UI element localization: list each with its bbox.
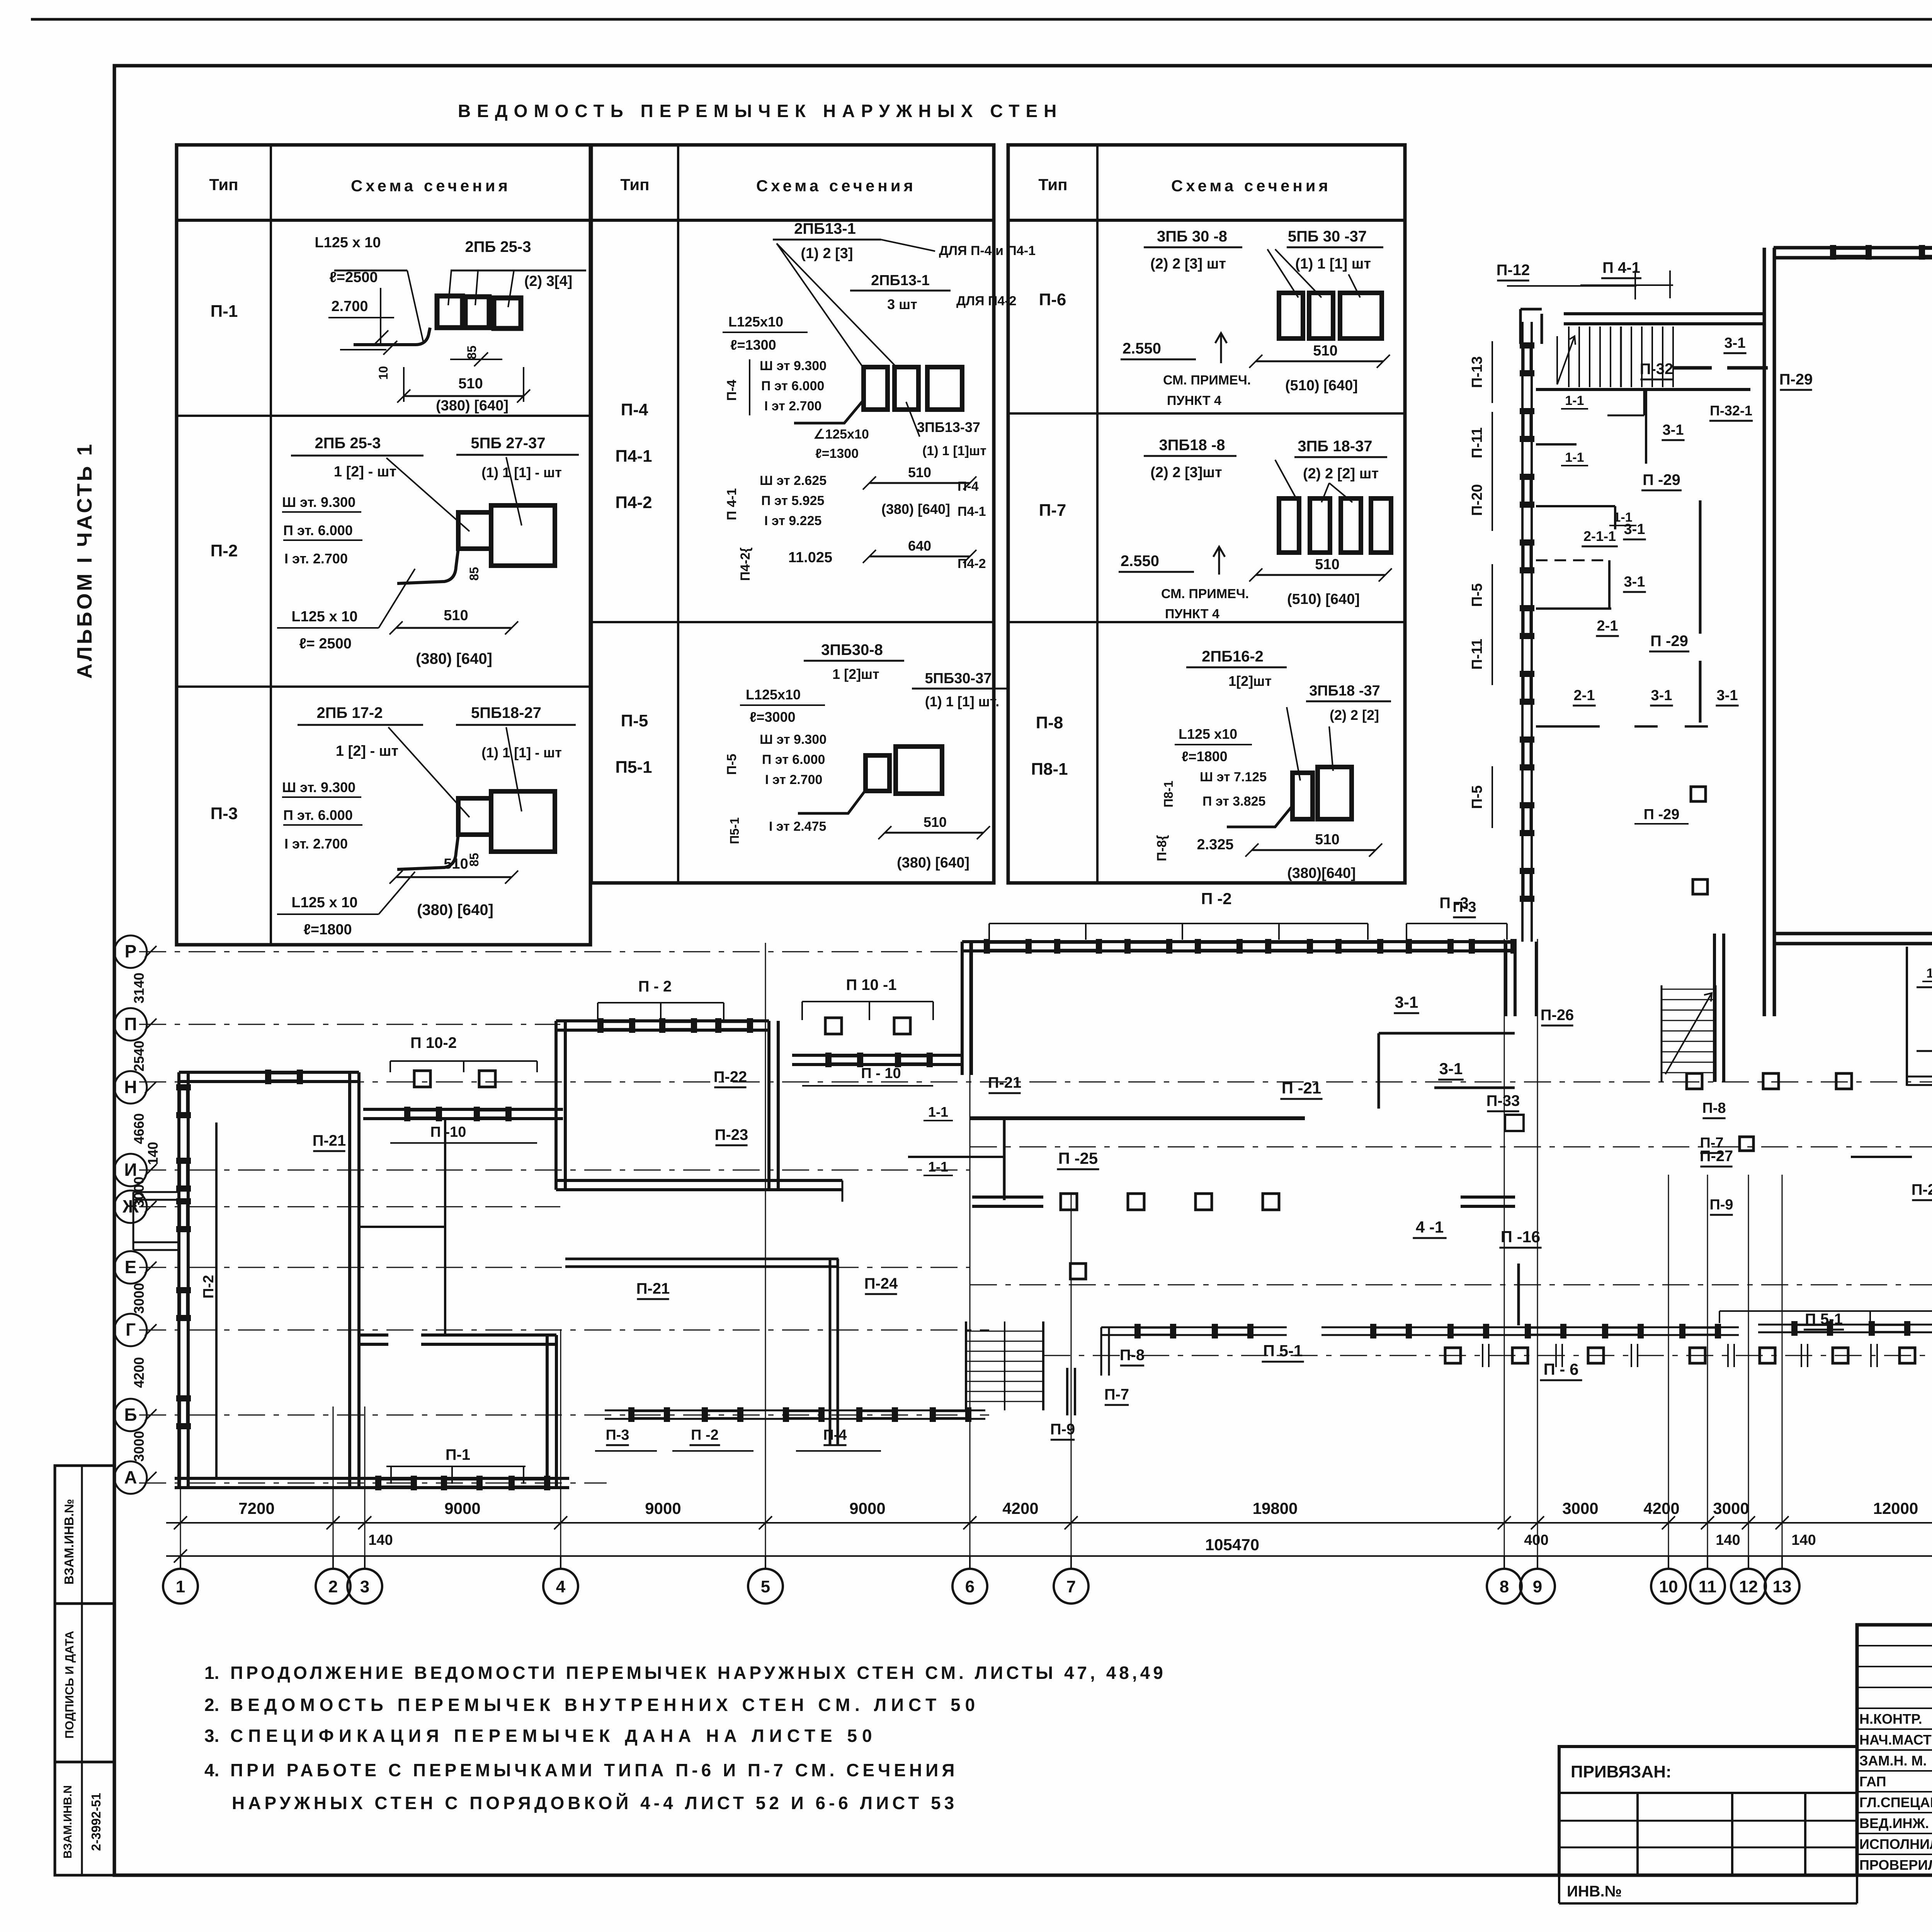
- svg-text:Тип: Тип: [1038, 175, 1067, 194]
- svg-text:(2) 2 [3] шт: (2) 2 [3] шт: [1150, 256, 1226, 272]
- svg-text:П -16: П -16: [1501, 1228, 1541, 1246]
- axis line D: [970, 1284, 1932, 1286]
- inv no row: [1558, 1875, 1560, 1903]
- svg-text:П-4: П-4: [957, 479, 979, 494]
- svg-text:П-1: П-1: [446, 1446, 470, 1463]
- svg-text:П-21: П-21: [988, 1074, 1022, 1091]
- svg-text:(2) 3[4]: (2) 3[4]: [524, 273, 573, 289]
- long P-2 wall: [962, 940, 1515, 943]
- svg-text:510: 510: [458, 376, 483, 392]
- svg-text:П -29: П -29: [1650, 633, 1688, 650]
- svg-text:(380)[640]: (380)[640]: [1287, 865, 1355, 881]
- svg-text:4: 4: [556, 1577, 566, 1596]
- svg-text:(380) [640]: (380) [640]: [881, 501, 950, 517]
- svg-text:L125 x 10: L125 x 10: [315, 235, 381, 251]
- svg-text:Схема сечения: Схема сечения: [1171, 177, 1331, 195]
- svg-text:5ПБ18-27: 5ПБ18-27: [471, 704, 541, 721]
- svg-text:3-1: 3-1: [1439, 1060, 1463, 1078]
- svg-text:П4-1: П4-1: [957, 504, 986, 519]
- axis line B: [139, 1415, 989, 1416]
- svg-text:Тип: Тип: [620, 175, 649, 194]
- svg-text:510: 510: [1315, 832, 1339, 848]
- svg-text:П 4-1: П 4-1: [1602, 259, 1640, 276]
- svg-text:2-1: 2-1: [1597, 618, 1618, 634]
- svg-text:ВЕДОМОСТЬ ПЕРЕМЫЧЕК НАРУЖНЫХ: ВЕДОМОСТЬ ПЕРЕМЫЧЕК НАРУЖНЫХ СТЕН: [458, 101, 1063, 121]
- N row wall segments: [1687, 1073, 1702, 1089]
- svg-text:3-1: 3-1: [1663, 422, 1684, 438]
- axis line A: [139, 1483, 607, 1484]
- svg-text:2-1-1: 2-1-1: [1583, 528, 1616, 544]
- svg-text:1[2]шт: 1[2]шт: [1228, 673, 1272, 689]
- svg-text:ВЗАМ.ИНВ.№: ВЗАМ.ИНВ.№: [62, 1499, 76, 1585]
- room B south wall / window row: [359, 1477, 569, 1480]
- svg-text:ГАП: ГАП: [1859, 1774, 1886, 1789]
- svg-text:1.: 1.: [204, 1663, 219, 1683]
- svg-text:П-12: П-12: [1497, 262, 1530, 279]
- svg-text:П-21: П-21: [313, 1132, 346, 1149]
- svg-text:4.: 4.: [204, 1760, 219, 1780]
- svg-text:П -25: П -25: [1058, 1149, 1098, 1167]
- svg-text:140: 140: [1791, 1532, 1816, 1548]
- hatched corridor pieces: [1673, 366, 1712, 370]
- svg-text:ℓ=1300: ℓ=1300: [730, 337, 776, 353]
- svg-text:(1) 1 [1] - шт: (1) 1 [1] - шт: [481, 464, 562, 480]
- svg-text:ПУНКТ 4: ПУНКТ 4: [1165, 607, 1219, 621]
- svg-text:ℓ=2500: ℓ=2500: [329, 269, 378, 286]
- axis line I: [139, 1170, 970, 1171]
- svg-text:П эт. 6.000: П эт. 6.000: [283, 522, 353, 538]
- svg-text:П -21: П -21: [1282, 1079, 1321, 1097]
- svg-text:3000: 3000: [131, 1177, 147, 1207]
- svg-text:3000: 3000: [131, 1283, 147, 1314]
- svg-text:П4-2: П4-2: [957, 556, 986, 571]
- svg-text:ЗАМ.Н. М.: ЗАМ.Н. М.: [1859, 1753, 1927, 1769]
- svg-text:3ПБ13-37: 3ПБ13-37: [917, 419, 980, 435]
- svg-text:6: 6: [965, 1577, 975, 1596]
- svg-text:Ш эт. 9.300: Ш эт. 9.300: [282, 494, 355, 510]
- svg-text:П5-1: П5-1: [615, 758, 652, 777]
- svg-text:П-32-1: П-32-1: [1710, 403, 1752, 418]
- svg-text:(1) 1 [1] шт: (1) 1 [1] шт: [1295, 256, 1371, 272]
- svg-text:П-2: П-2: [211, 541, 238, 560]
- svg-text:Схема сечения: Схема сечения: [756, 177, 916, 195]
- svg-text:(2) 2 [2]: (2) 2 [2]: [1330, 707, 1379, 723]
- B-wall (west wing top): [1564, 312, 1764, 315]
- svg-text:I эт 2.475: I эт 2.475: [769, 819, 826, 834]
- small partitions: [1536, 505, 1615, 507]
- svg-text:I эт. 2.700: I эт. 2.700: [284, 551, 348, 566]
- svg-text:ПУНКТ 4: ПУНКТ 4: [1167, 393, 1221, 408]
- svg-text:П-2: П-2: [201, 1275, 217, 1298]
- svg-text:L125 x 10: L125 x 10: [291, 609, 357, 625]
- svg-text:П-7: П-7: [1039, 501, 1066, 520]
- svg-text:7200: 7200: [238, 1499, 274, 1517]
- svg-text:П-4: П-4: [823, 1427, 847, 1443]
- room R1 west wall: [554, 1021, 558, 1190]
- svg-text:3-1: 3-1: [1717, 687, 1738, 704]
- svg-text:П эт. 6.000: П эт. 6.000: [283, 807, 353, 823]
- svg-text:2ПБ13-1: 2ПБ13-1: [871, 272, 930, 289]
- svg-text:1 [2]шт: 1 [2]шт: [832, 666, 879, 682]
- axis line G: [139, 1330, 989, 1331]
- room R1 south wall: [556, 1179, 842, 1182]
- svg-text:П-28: П-28: [1912, 1181, 1932, 1198]
- svg-text:П-8: П-8: [1036, 713, 1063, 732]
- svg-text:П-5: П-5: [1469, 785, 1485, 809]
- svg-text:1: 1: [176, 1577, 185, 1596]
- room B east wall: [546, 1335, 549, 1488]
- svg-text:Ш эт 7.125: Ш эт 7.125: [1200, 770, 1267, 784]
- svg-text:П4-2: П4-2: [615, 493, 652, 512]
- svg-text:П-9: П-9: [1709, 1197, 1733, 1213]
- svg-text:I эт. 2.700: I эт. 2.700: [284, 836, 348, 852]
- svg-text:640: 640: [908, 538, 931, 554]
- svg-text:9000: 9000: [645, 1499, 681, 1517]
- svg-text:(1) 2 [3]: (1) 2 [3]: [801, 245, 853, 262]
- left block north wall: [179, 1071, 359, 1074]
- svg-text:(2) 2 [3]шт: (2) 2 [3]шт: [1150, 464, 1222, 481]
- room R1 east wall: [767, 1021, 770, 1190]
- svg-text:П4-1: П4-1: [615, 447, 652, 466]
- svg-text:8: 8: [1500, 1577, 1509, 1596]
- svg-text:10: 10: [1659, 1577, 1678, 1596]
- svg-text:3-1: 3-1: [1624, 521, 1645, 537]
- svg-text:3-1: 3-1: [1725, 335, 1746, 351]
- svg-text:П эт 3.825: П эт 3.825: [1202, 794, 1265, 809]
- svg-text:П-6: П-6: [1039, 290, 1066, 309]
- svg-text:4200: 4200: [1002, 1499, 1038, 1517]
- svg-text:П-24: П-24: [864, 1275, 898, 1292]
- left block west wall: [177, 1072, 180, 1488]
- P-8 corner: [1100, 1327, 1102, 1376]
- left block east wall: [348, 1072, 351, 1488]
- svg-text:3ПБ18 -37: 3ПБ18 -37: [1309, 683, 1380, 699]
- svg-text:10: 10: [376, 366, 390, 380]
- svg-text:ℓ=1800: ℓ=1800: [1182, 748, 1228, 764]
- svg-text:ℓ=3000: ℓ=3000: [750, 709, 796, 725]
- svg-text:(1) 1 [1] шт.: (1) 1 [1] шт.: [925, 694, 1000, 709]
- svg-text:Ш эт 9.300: Ш эт 9.300: [760, 732, 827, 747]
- svg-text:(380) [640]: (380) [640]: [416, 650, 492, 667]
- svg-text:ПРОДОЛЖЕНИЕ ВЕДОМОСТИ ПЕРЕМЫ: ПРОДОЛЖЕНИЕ ВЕДОМОСТИ ПЕРЕМЫЧЕК НАРУЖНЫХ…: [230, 1663, 1166, 1683]
- svg-text:ИНВ.№: ИНВ.№: [1567, 1883, 1622, 1900]
- svg-text:400: 400: [1524, 1532, 1548, 1548]
- svg-text:П 5-1: П 5-1: [1263, 1342, 1303, 1360]
- svg-text:(380) [640]: (380) [640]: [417, 901, 493, 918]
- svg-text:Е: Е: [125, 1257, 137, 1277]
- svg-text:П-22: П-22: [714, 1068, 747, 1085]
- svg-text:СМ. ПРИМЕЧ.: СМ. ПРИМЕЧ.: [1163, 373, 1251, 388]
- west window wall of right block: [1521, 322, 1524, 942]
- svg-text:П эт 6.000: П эт 6.000: [762, 752, 825, 767]
- hall west wall: [1763, 248, 1766, 1016]
- P-1 bracket: [386, 1466, 526, 1467]
- west corner piece: [1519, 309, 1522, 344]
- svg-text:9: 9: [1533, 1577, 1542, 1596]
- svg-text:1-1: 1-1: [928, 1104, 948, 1120]
- svg-text:5ПБ 27-37: 5ПБ 27-37: [471, 435, 545, 452]
- svg-text:П4-2{: П4-2{: [738, 548, 753, 581]
- B axis columns: [1445, 1348, 1461, 1363]
- P5-1 corridor wall: [1101, 1327, 1287, 1328]
- small rooms partitions: [1906, 947, 1908, 1086]
- svg-text:L125 x 10: L125 x 10: [291, 895, 357, 911]
- svg-text:140: 140: [1716, 1532, 1740, 1548]
- svg-text:ИСПОЛНИЛ: ИСПОЛНИЛ: [1859, 1836, 1932, 1852]
- svg-text:ℓ= 2500: ℓ= 2500: [299, 636, 352, 652]
- svg-text:I эт 2.700: I эт 2.700: [765, 772, 822, 787]
- svg-text:П эт 5.925: П эт 5.925: [761, 493, 824, 508]
- svg-text:L125 x10: L125 x10: [1179, 726, 1237, 742]
- svg-text:П-9: П-9: [1050, 1421, 1075, 1438]
- svg-text:П-3: П-3: [211, 804, 238, 823]
- svg-text:12: 12: [1739, 1577, 1758, 1596]
- svg-text:П -2: П -2: [691, 1427, 719, 1443]
- axis line E: [139, 1267, 970, 1268]
- svg-text:(1) 1 [1] - шт: (1) 1 [1] - шт: [481, 745, 562, 760]
- title block horizontals left part: [1857, 1645, 1932, 1646]
- svg-text:3ПБ 30 -8: 3ПБ 30 -8: [1157, 228, 1227, 245]
- svg-text:510: 510: [1315, 556, 1339, 573]
- svg-text:510: 510: [444, 607, 468, 624]
- bottom axis circles: [163, 1569, 198, 1604]
- svg-text:2ПБ16-2: 2ПБ16-2: [1202, 648, 1264, 665]
- lower-left wing south wall: [605, 1410, 985, 1412]
- svg-text:I эт 9.225: I эт 9.225: [764, 514, 821, 528]
- svg-text:П - 6: П - 6: [1544, 1360, 1579, 1378]
- svg-text:4200: 4200: [131, 1357, 147, 1388]
- column row y3110: [972, 1196, 1043, 1199]
- room B north wall: [359, 1333, 388, 1337]
- svg-text:ℓ=1800: ℓ=1800: [303, 922, 352, 938]
- svg-text:3000: 3000: [1713, 1499, 1749, 1517]
- svg-text:П -29: П -29: [1643, 471, 1680, 488]
- svg-text:3.: 3.: [204, 1726, 219, 1746]
- svg-text:П-26: П-26: [1541, 1007, 1574, 1024]
- svg-text:5: 5: [761, 1577, 770, 1596]
- svg-text:3-1: 3-1: [1395, 993, 1418, 1011]
- partition x1152: [444, 1119, 446, 1335]
- svg-text:П - 2: П - 2: [638, 978, 672, 995]
- svg-text:П-5: П-5: [621, 711, 648, 730]
- svg-text:П эт 6.000: П эт 6.000: [761, 379, 824, 393]
- svg-text:2ПБ 25-3: 2ПБ 25-3: [315, 435, 381, 452]
- svg-text:П-20: П-20: [1469, 484, 1485, 516]
- svg-text:Ш эт. 9.300: Ш эт. 9.300: [282, 779, 355, 795]
- svg-text:П-3: П-3: [1452, 899, 1476, 915]
- svg-text:13: 13: [1773, 1577, 1792, 1596]
- partition x4400: [1699, 500, 1702, 634]
- svg-text:Схема сечения: Схема сечения: [351, 177, 511, 195]
- svg-text:ВЗАМ.ИНВ.N: ВЗАМ.ИНВ.N: [61, 1785, 74, 1859]
- svg-text:2ПБ 25-3: 2ПБ 25-3: [465, 238, 531, 255]
- svg-text:П 10-2: П 10-2: [410, 1034, 457, 1051]
- svg-text:Н.КОНТР.: Н.КОНТР.: [1859, 1711, 1922, 1727]
- svg-text:Тип: Тип: [209, 175, 238, 194]
- svg-text:1 [2] - шт: 1 [2] - шт: [334, 464, 396, 480]
- svg-text:ПОДПИСЬ И ДАТА: ПОДПИСЬ И ДАТА: [63, 1631, 76, 1738]
- svg-text:105470: 105470: [1205, 1536, 1259, 1554]
- svg-text:3ПБ18 -8: 3ПБ18 -8: [1159, 437, 1225, 454]
- P10-2 wall: [363, 1108, 563, 1111]
- svg-text:2.550: 2.550: [1121, 553, 1159, 570]
- svg-text:1 [2] - шт: 1 [2] - шт: [336, 743, 398, 759]
- connector wall: [961, 942, 964, 1075]
- svg-text:П-4: П-4: [621, 400, 648, 419]
- svg-text:1-1: 1-1: [1565, 450, 1584, 465]
- left axis circles: [114, 935, 147, 968]
- svg-text:3ПБ 18-37: 3ПБ 18-37: [1298, 438, 1372, 455]
- svg-text:П-3: П-3: [605, 1427, 629, 1443]
- svg-text:П 4-1: П 4-1: [724, 488, 739, 520]
- svg-text:П-13: П-13: [1469, 356, 1485, 388]
- P-3 label: [1406, 923, 1507, 924]
- svg-text:9000: 9000: [849, 1499, 885, 1517]
- svg-text:ДЛЯ П4-2: ДЛЯ П4-2: [956, 294, 1017, 308]
- svg-text:2540: 2540: [131, 1041, 147, 1071]
- svg-text:П-7: П-7: [1104, 1386, 1129, 1403]
- svg-text:19800: 19800: [1253, 1499, 1298, 1517]
- wall end verticals: [1504, 942, 1507, 1016]
- svg-text:П-11: П-11: [1469, 427, 1485, 458]
- K row segments: [1851, 1156, 1912, 1158]
- svg-text:П - 10: П - 10: [861, 1065, 901, 1082]
- svg-text:П -2: П -2: [1201, 889, 1231, 908]
- partition x2599: [1003, 1118, 1006, 1200]
- hall north wall: [1774, 246, 1932, 250]
- svg-text:Ш эт 2.625: Ш эт 2.625: [760, 473, 827, 488]
- svg-text:ПРОВЕРИЛ: ПРОВЕРИЛ: [1859, 1857, 1932, 1873]
- sheet outer border: [31, 18, 1932, 21]
- svg-text:140: 140: [368, 1532, 393, 1548]
- corridor wall y1000: [1536, 388, 1750, 391]
- left porch: [133, 1191, 180, 1193]
- svg-text:510: 510: [908, 464, 931, 480]
- svg-text:3-1: 3-1: [1651, 687, 1672, 704]
- svg-text:Ш эт 9.300: Ш эт 9.300: [760, 359, 827, 373]
- panel 2 frame: [591, 145, 994, 883]
- svg-text:П5-1: П5-1: [728, 817, 742, 844]
- svg-text:(1) 1 [1]шт: (1) 1 [1]шт: [922, 444, 986, 458]
- svg-text:9000: 9000: [444, 1499, 480, 1517]
- svg-text:510: 510: [444, 856, 468, 872]
- axis line N: [139, 1082, 1932, 1083]
- svg-text:3000: 3000: [1562, 1499, 1598, 1517]
- P-2 bracket above R1: [598, 1002, 724, 1003]
- svg-text:2.700: 2.700: [331, 298, 368, 315]
- svg-text:АЛЬБОМ I ЧАСТЬ 1: АЛЬБОМ I ЧАСТЬ 1: [73, 442, 96, 679]
- svg-text:ПРИ РАБОТЕ С ПЕРЕМЫЧКАМИ ТИ: ПРИ РАБОТЕ С ПЕРЕМЫЧКАМИ ТИПА П-6 И П-7 …: [230, 1760, 958, 1780]
- P-32 stairs: [1568, 327, 1570, 387]
- svg-text:2ПБ 17-2: 2ПБ 17-2: [317, 704, 383, 721]
- svg-text:П-29: П-29: [1779, 371, 1813, 388]
- svg-text:11: 11: [1699, 1577, 1717, 1596]
- room row y1880: [1536, 725, 1600, 728]
- svg-text:2.: 2.: [204, 1695, 219, 1715]
- svg-text:4660: 4660: [131, 1113, 147, 1144]
- svg-text:5ПБ 30 -37: 5ПБ 30 -37: [1288, 228, 1367, 245]
- svg-text:П-11: П-11: [1469, 639, 1485, 670]
- svg-text:I эт 2.700: I эт 2.700: [764, 399, 821, 413]
- axis line R: [139, 951, 1522, 952]
- svg-text:П 10 -1: П 10 -1: [846, 976, 896, 993]
- partition y3175: [359, 1226, 445, 1228]
- svg-text:4 -1: 4 -1: [1416, 1218, 1444, 1236]
- svg-text:2: 2: [328, 1577, 338, 1596]
- svg-text:П-32: П-32: [1640, 361, 1673, 378]
- svg-text:П -29: П -29: [1644, 806, 1680, 823]
- svg-text:2ПБ13-1: 2ПБ13-1: [794, 220, 856, 237]
- svg-text:3: 3: [360, 1577, 369, 1596]
- svg-text:2-3992-51: 2-3992-51: [89, 1793, 103, 1851]
- svg-text:1-1: 1-1: [928, 1159, 948, 1175]
- dimension line 1: [166, 1522, 1932, 1524]
- axis line V: [1043, 1355, 1932, 1356]
- P-2 bracket: [989, 923, 1368, 924]
- svg-text:НАРУЖНЫХ СТЕН С ПОРЯДОВКОЙ: НАРУЖНЫХ СТЕН С ПОРЯДОВКОЙ 4-4 ЛИСТ 52 И…: [232, 1793, 957, 1813]
- axis line Zh: [139, 1206, 560, 1207]
- svg-text:ГЛ.СПЕЦАР: ГЛ.СПЕЦАР: [1859, 1794, 1932, 1810]
- svg-text:П-27: П-27: [1700, 1148, 1733, 1165]
- svg-text:L125x10: L125x10: [746, 687, 801, 702]
- svg-text:3140: 3140: [131, 973, 147, 1003]
- svg-text:3-1: 3-1: [1624, 574, 1645, 590]
- svg-text:2.550: 2.550: [1122, 340, 1161, 357]
- column axis verticals: [180, 1410, 181, 1556]
- room R1 north wall: [556, 1019, 769, 1022]
- stairs mid: [1661, 985, 1663, 1082]
- panel 3 frame: [1008, 145, 1405, 883]
- svg-text:ℓ=1300: ℓ=1300: [815, 446, 859, 461]
- svg-text:НАЧ.МАСТ: НАЧ.МАСТ: [1859, 1732, 1932, 1748]
- svg-text:П-5: П-5: [1469, 583, 1485, 607]
- svg-text:П8-1: П8-1: [1162, 781, 1175, 807]
- title block frame: [1857, 1625, 1932, 1875]
- svg-text:А: А: [124, 1467, 137, 1487]
- corridor wall P10-1: [792, 1054, 962, 1057]
- svg-text:П 5-1: П 5-1: [1805, 1311, 1843, 1328]
- svg-text:11.025: 11.025: [788, 549, 832, 566]
- svg-text:П-23: П-23: [715, 1126, 748, 1143]
- svg-text:85: 85: [467, 567, 481, 581]
- left block inner wall: [215, 1122, 218, 1478]
- svg-text:П-8{: П-8{: [1155, 835, 1169, 861]
- svg-text:СМ. ПРИМЕЧ.: СМ. ПРИМЕЧ.: [1161, 587, 1249, 601]
- privyazan box: [1559, 1747, 1857, 1875]
- panel 1 frame: [177, 145, 590, 945]
- svg-text:1-1: 1-1: [1926, 966, 1932, 981]
- svg-text:П-33: П-33: [1486, 1092, 1520, 1109]
- svg-text:85: 85: [467, 853, 481, 867]
- room S wall y3268: [565, 1258, 838, 1260]
- svg-text:П -10: П -10: [430, 1124, 466, 1140]
- svg-text:Н: Н: [124, 1077, 137, 1097]
- svg-text:ВЕДОМОСТЬ ПЕРЕМЫЧЕК ВНУТРЕНН: ВЕДОМОСТЬ ПЕРЕМЫЧЕК ВНУТРЕННИХ СТЕН СМ. …: [230, 1695, 980, 1715]
- svg-text:ВЕД.ИНЖ.: ВЕД.ИНЖ.: [1859, 1815, 1929, 1831]
- svg-text:(2) 2 [2] шт: (2) 2 [2] шт: [1303, 466, 1379, 482]
- corridor wall P-21 mid: [970, 1116, 1305, 1120]
- svg-text:L125x10: L125x10: [728, 314, 783, 330]
- P5-1 wall right part: [1758, 1324, 1932, 1326]
- svg-text:140: 140: [145, 1142, 161, 1165]
- room 3-1 walls: [1379, 1032, 1515, 1035]
- svg-text:СПЕЦИФИКАЦИЯ ПЕРЕМЫЧЕК ДАНА: СПЕЦИФИКАЦИЯ ПЕРЕМЫЧЕК ДАНА НА ЛИСТЕ 50: [230, 1726, 877, 1746]
- stairs at column 6: [965, 1321, 967, 1410]
- svg-text:4200: 4200: [1643, 1499, 1679, 1517]
- svg-text:(380) [640]: (380) [640]: [897, 855, 969, 871]
- dimension line 2 (total): [166, 1555, 1932, 1557]
- left block south wall: [175, 1477, 359, 1480]
